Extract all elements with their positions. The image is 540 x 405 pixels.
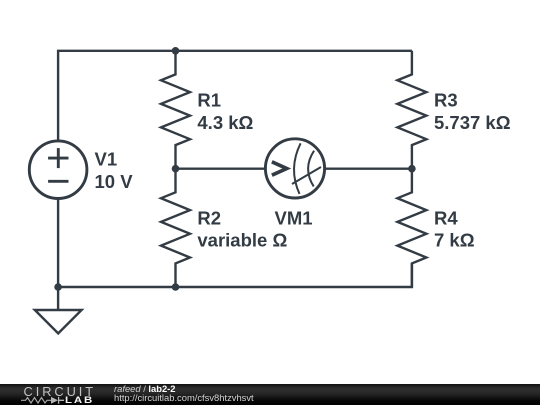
svg-text:R2: R2 bbox=[197, 208, 221, 229]
footer title rafeed / lab2-2 bbox=[114, 384, 176, 393]
wire bottom rail right bbox=[176, 263, 412, 287]
CircuitLab logo wordmark CIRCUIT bbox=[24, 386, 97, 399]
resistor R2 bbox=[161, 169, 190, 287]
wire top rail bbox=[58, 51, 412, 141]
resistor R4 bbox=[397, 169, 426, 287]
resistor R3 bbox=[397, 51, 426, 169]
wire left bottom segment bbox=[58, 199, 175, 288]
svg-text:VM1: VM1 bbox=[275, 208, 313, 229]
svg-text:R1: R1 bbox=[197, 89, 221, 110]
wire mid right (VM1 to node) bbox=[324, 167, 412, 169]
svg-text:V1: V1 bbox=[95, 148, 118, 169]
ground bbox=[35, 287, 82, 333]
resistor R1 bbox=[161, 51, 190, 169]
node top mid bbox=[172, 47, 180, 55]
svg-text:7 kΩ: 7 kΩ bbox=[434, 229, 475, 250]
node bottom mid bbox=[172, 283, 180, 291]
footer bar bbox=[0, 384, 540, 405]
svg-text:4.3 kΩ: 4.3 kΩ bbox=[197, 112, 253, 133]
node mid left bbox=[172, 165, 180, 173]
svg-text:variable Ω: variable Ω bbox=[197, 229, 287, 250]
svg-text:5.737 kΩ: 5.737 kΩ bbox=[434, 112, 511, 133]
svg-text:R4: R4 bbox=[434, 208, 458, 229]
wire mid left (node to VM1) bbox=[176, 167, 266, 169]
CircuitLab logo resistor+diode glyph bbox=[20, 396, 65, 405]
node bottom left (ground) bbox=[54, 283, 62, 291]
node mid right bbox=[408, 165, 416, 173]
svg-text:R3: R3 bbox=[434, 89, 458, 110]
voltage source V1 bbox=[29, 141, 87, 199]
footer url bbox=[114, 393, 254, 402]
CircuitLab logo wordmark LAB bbox=[65, 396, 94, 405]
voltmeter VM1 bbox=[265, 139, 324, 198]
svg-text:10 V: 10 V bbox=[95, 171, 134, 192]
